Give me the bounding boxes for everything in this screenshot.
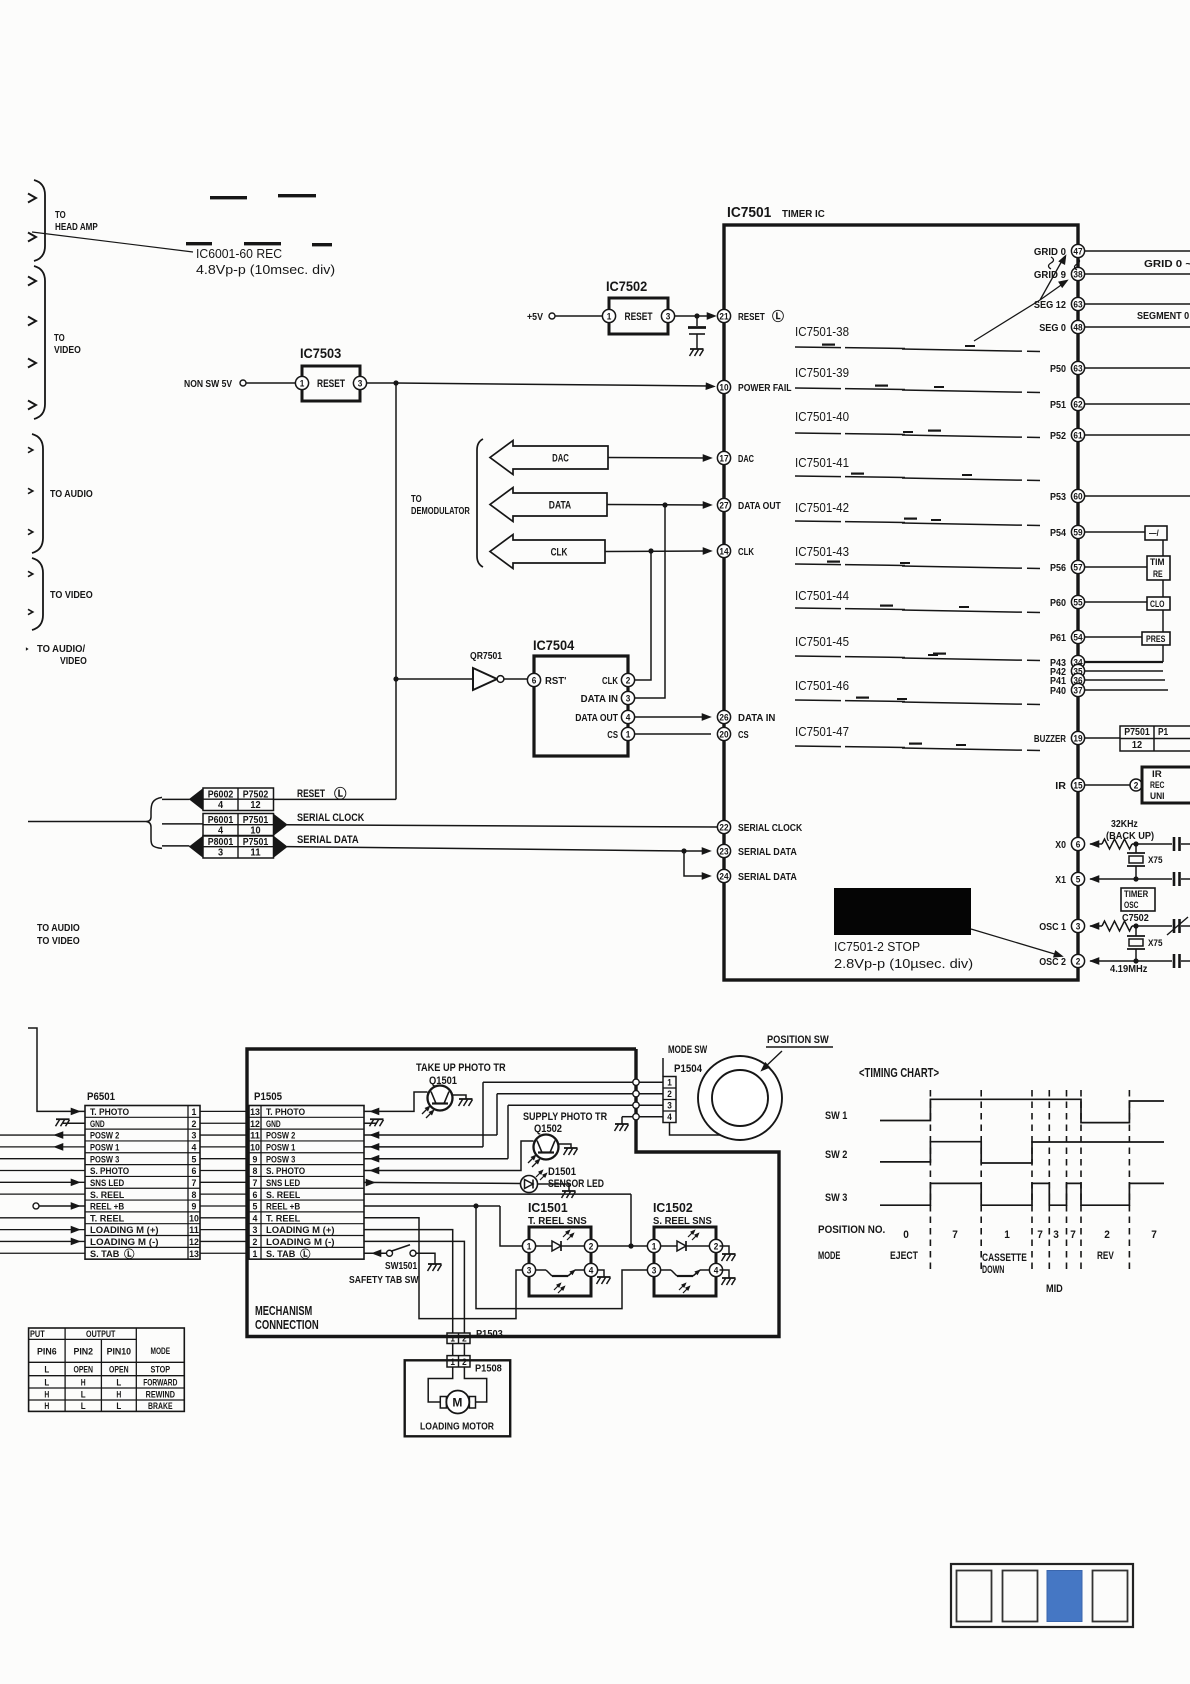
- svg-text:OPEN: OPEN: [109, 1364, 129, 1375]
- svg-text:2: 2: [589, 1241, 594, 1251]
- svg-text:PIN10: PIN10: [107, 1347, 132, 1358]
- svg-text:IC7501-39: IC7501-39: [795, 366, 849, 380]
- svg-text:DATA OUT: DATA OUT: [738, 500, 781, 512]
- svg-text:4: 4: [589, 1265, 594, 1275]
- svg-text:59: 59: [1073, 527, 1082, 537]
- svg-text:GRID 0 ~: GRID 0 ~: [1144, 258, 1190, 270]
- svg-text:3: 3: [1076, 921, 1081, 931]
- svg-text:1: 1: [1004, 1229, 1010, 1241]
- svg-text:SW 2: SW 2: [825, 1149, 847, 1161]
- svg-text:TO: TO: [55, 209, 66, 221]
- svg-text:2: 2: [1076, 956, 1081, 966]
- svg-text:17: 17: [719, 453, 728, 463]
- svg-text:P52: P52: [1050, 430, 1066, 442]
- svg-text:POSW 2: POSW 2: [266, 1131, 295, 1142]
- svg-text:SERIAL CLOCK: SERIAL CLOCK: [297, 812, 364, 824]
- svg-text:DATA IN: DATA IN: [581, 693, 618, 705]
- svg-text:TO: TO: [54, 332, 65, 344]
- svg-text:IC6001-60 REC: IC6001-60 REC: [196, 246, 282, 261]
- svg-text:POSW 3: POSW 3: [90, 1154, 119, 1165]
- svg-text:2: 2: [1134, 781, 1139, 791]
- svg-text:X75: X75: [1148, 938, 1163, 949]
- svg-text:IC7501-43: IC7501-43: [795, 545, 849, 559]
- svg-text:IC7501-46: IC7501-46: [795, 679, 849, 693]
- svg-text:MID: MID: [1046, 1283, 1063, 1295]
- svg-text:T. PHOTO: T. PHOTO: [90, 1107, 130, 1118]
- svg-text:P7501: P7501: [1124, 727, 1150, 738]
- svg-text:VIDEO: VIDEO: [60, 655, 87, 667]
- svg-text:IC1502: IC1502: [653, 1200, 693, 1215]
- svg-text:SERIAL CLOCK: SERIAL CLOCK: [738, 822, 803, 834]
- svg-text:Ⓛ: Ⓛ: [300, 1247, 311, 1260]
- svg-text:CLK: CLK: [602, 675, 618, 687]
- svg-text:P51: P51: [1050, 399, 1066, 411]
- svg-text:11: 11: [250, 848, 261, 859]
- svg-text:4.19MHz: 4.19MHz: [1110, 963, 1147, 975]
- svg-text:SERIAL DATA: SERIAL DATA: [738, 871, 797, 883]
- svg-text:P54: P54: [1050, 527, 1066, 539]
- svg-text:OUTPUT: OUTPUT: [86, 1329, 115, 1340]
- svg-text:HEAD AMP: HEAD AMP: [55, 221, 98, 233]
- svg-text:47: 47: [1073, 246, 1082, 256]
- svg-text:4: 4: [218, 800, 224, 811]
- svg-text:S. REEL: S. REEL: [266, 1190, 300, 1201]
- svg-text:Ⓛ: Ⓛ: [124, 1247, 135, 1260]
- svg-text:TO VIDEO: TO VIDEO: [37, 935, 80, 947]
- svg-text:S. TAB: S. TAB: [90, 1249, 119, 1260]
- svg-text:P7501: P7501: [243, 837, 269, 848]
- svg-text:P1505: P1505: [254, 1091, 282, 1103]
- svg-text:IC7501-40: IC7501-40: [795, 410, 849, 424]
- svg-text:P7501: P7501: [243, 815, 269, 826]
- svg-text:TO AUDIO: TO AUDIO: [37, 922, 80, 934]
- svg-text:SEGMENT 0 ~: SEGMENT 0 ~: [1137, 310, 1190, 322]
- svg-text:55: 55: [1073, 597, 1082, 607]
- svg-text:MECHANISM: MECHANISM: [255, 1304, 312, 1318]
- svg-text:20: 20: [719, 729, 728, 739]
- svg-text:X75: X75: [1148, 855, 1163, 866]
- svg-text:1: 1: [450, 1357, 455, 1367]
- svg-text:REC: REC: [1150, 780, 1165, 791]
- svg-text:TIMER IC: TIMER IC: [782, 208, 825, 220]
- svg-text:+5V: +5V: [527, 311, 543, 323]
- svg-text:SUPPLY PHOTO TR: SUPPLY PHOTO TR: [523, 1111, 607, 1123]
- svg-text:GND: GND: [90, 1119, 105, 1130]
- svg-text:POSW 1: POSW 1: [90, 1142, 120, 1153]
- svg-text:CS: CS: [738, 729, 749, 741]
- svg-text:LOADING M (+): LOADING M (+): [266, 1225, 335, 1236]
- svg-text:12: 12: [189, 1237, 199, 1248]
- svg-text:P61: P61: [1050, 632, 1066, 644]
- svg-text:—/: —/: [1149, 528, 1159, 539]
- svg-text:3: 3: [358, 378, 363, 388]
- svg-text:IR: IR: [1055, 780, 1066, 792]
- svg-text:CLO: CLO: [1150, 599, 1165, 610]
- svg-text:PIN2: PIN2: [73, 1347, 93, 1358]
- svg-text:M: M: [452, 1396, 463, 1410]
- svg-text:7: 7: [1151, 1229, 1157, 1241]
- svg-text:7: 7: [1070, 1229, 1076, 1241]
- svg-text:5: 5: [192, 1154, 198, 1165]
- svg-text:10: 10: [250, 1142, 260, 1153]
- svg-text:23: 23: [719, 846, 728, 856]
- svg-text:CLK: CLK: [738, 546, 754, 558]
- svg-text:L: L: [116, 1377, 121, 1388]
- svg-text:S. TAB: S. TAB: [266, 1249, 295, 1260]
- svg-text:TO VIDEO: TO VIDEO: [50, 589, 93, 601]
- svg-text:38: 38: [1073, 269, 1082, 279]
- svg-text:RST': RST': [545, 675, 566, 687]
- svg-text:11: 11: [250, 1131, 260, 1142]
- svg-text:S. PHOTO: S. PHOTO: [90, 1166, 130, 1177]
- svg-text:TAKE UP PHOTO TR: TAKE UP PHOTO TR: [416, 1062, 506, 1074]
- svg-text:14: 14: [719, 546, 728, 556]
- svg-text:P1508: P1508: [475, 1363, 502, 1375]
- svg-text:7: 7: [253, 1178, 258, 1189]
- svg-text:MODE: MODE: [818, 1250, 840, 1262]
- svg-text:4: 4: [714, 1265, 719, 1275]
- svg-text:P8001: P8001: [208, 837, 234, 848]
- svg-text:3: 3: [527, 1265, 532, 1275]
- svg-text:P56: P56: [1050, 562, 1066, 574]
- svg-text:OPEN: OPEN: [73, 1364, 93, 1375]
- svg-text:7: 7: [1037, 1229, 1043, 1241]
- svg-text:2: 2: [714, 1241, 719, 1251]
- svg-text:OSC: OSC: [1124, 900, 1139, 911]
- svg-text:2: 2: [192, 1119, 197, 1130]
- svg-text:12: 12: [250, 1119, 260, 1130]
- svg-text:PUT: PUT: [30, 1329, 45, 1340]
- svg-text:REV: REV: [1097, 1250, 1114, 1262]
- svg-text:1: 1: [450, 1334, 455, 1344]
- svg-text:Ⓛ: Ⓛ: [772, 309, 785, 324]
- svg-text:SW 3: SW 3: [825, 1192, 847, 1204]
- svg-text:1: 1: [607, 311, 612, 321]
- svg-text:19: 19: [1073, 733, 1082, 743]
- svg-text:15: 15: [1073, 780, 1082, 790]
- svg-text:48: 48: [1073, 322, 1082, 332]
- svg-text:X1: X1: [1055, 874, 1066, 886]
- svg-text:RESET: RESET: [738, 311, 765, 323]
- svg-text:P6001: P6001: [208, 815, 234, 826]
- svg-text:P53: P53: [1050, 491, 1066, 503]
- svg-text:10: 10: [719, 382, 728, 392]
- svg-text:LOADING M (+): LOADING M (+): [90, 1225, 159, 1236]
- svg-text:REWIND: REWIND: [146, 1389, 175, 1400]
- svg-text:3: 3: [192, 1131, 197, 1142]
- svg-text:DATA: DATA: [549, 500, 571, 512]
- svg-text:SEG 0: SEG 0: [1039, 322, 1066, 334]
- svg-text:57: 57: [1073, 562, 1082, 572]
- svg-text:DEMODULATOR: DEMODULATOR: [411, 505, 470, 517]
- svg-text:3: 3: [253, 1225, 258, 1236]
- svg-text:3: 3: [667, 1101, 672, 1111]
- svg-text:MODE SW: MODE SW: [668, 1044, 708, 1056]
- svg-text:P60: P60: [1050, 597, 1066, 609]
- svg-text:3: 3: [626, 693, 631, 703]
- svg-text:T. REEL SNS: T. REEL SNS: [528, 1215, 587, 1227]
- svg-text:(BACK UP): (BACK UP): [1106, 830, 1154, 842]
- svg-text:5: 5: [253, 1202, 259, 1213]
- svg-text:H: H: [116, 1389, 121, 1400]
- svg-text:L: L: [44, 1364, 49, 1375]
- svg-text:<TIMING CHART>: <TIMING CHART>: [859, 1066, 939, 1080]
- svg-text:RE: RE: [1153, 569, 1163, 580]
- svg-text:POSW 3: POSW 3: [266, 1154, 295, 1165]
- svg-text:11: 11: [189, 1225, 199, 1236]
- svg-text:1: 1: [192, 1107, 198, 1118]
- svg-text:8: 8: [253, 1166, 259, 1177]
- svg-text:37: 37: [1073, 685, 1082, 695]
- svg-text:L: L: [81, 1389, 86, 1400]
- svg-text:SAFETY TAB SW: SAFETY TAB SW: [349, 1274, 419, 1286]
- svg-text:T. REEL: T. REEL: [90, 1213, 124, 1224]
- svg-text:SW 1: SW 1: [825, 1110, 847, 1122]
- svg-text:2: 2: [667, 1089, 672, 1099]
- svg-text:DAC: DAC: [738, 453, 754, 465]
- svg-text:TO AUDIO: TO AUDIO: [50, 488, 93, 500]
- svg-text:L: L: [81, 1401, 86, 1412]
- svg-text:1: 1: [626, 729, 631, 739]
- svg-text:H: H: [44, 1401, 49, 1412]
- svg-text:60: 60: [1073, 491, 1082, 501]
- svg-text:TO: TO: [411, 493, 422, 505]
- svg-text:L: L: [116, 1401, 121, 1412]
- svg-text:TIMER: TIMER: [1124, 889, 1148, 900]
- svg-text:RESET: RESET: [625, 311, 653, 323]
- svg-text:POSW 1: POSW 1: [266, 1142, 296, 1153]
- svg-text:1: 1: [667, 1078, 672, 1088]
- svg-text:P6501: P6501: [87, 1091, 115, 1103]
- svg-text:IC7501-38: IC7501-38: [795, 325, 849, 339]
- svg-text:2: 2: [626, 675, 631, 685]
- svg-text:S. REEL: S. REEL: [90, 1190, 124, 1201]
- svg-text:8: 8: [192, 1190, 198, 1201]
- svg-text:RESET: RESET: [297, 788, 325, 800]
- svg-text:CONNECTION: CONNECTION: [255, 1318, 319, 1332]
- svg-text:2.8Vp-p (10µsec. div): 2.8Vp-p (10µsec. div): [834, 956, 973, 971]
- svg-text:REEL +B: REEL +B: [90, 1202, 124, 1213]
- svg-text:IR: IR: [1152, 769, 1162, 780]
- svg-text:H: H: [81, 1377, 86, 1388]
- svg-text:DOWN: DOWN: [982, 1264, 1004, 1276]
- svg-text:63: 63: [1073, 299, 1082, 309]
- svg-text:9: 9: [253, 1154, 258, 1165]
- svg-text:GRID 0: GRID 0: [1034, 246, 1066, 258]
- svg-text:P1503: P1503: [476, 1328, 503, 1340]
- svg-text:2: 2: [253, 1237, 258, 1248]
- svg-text:5: 5: [1076, 874, 1081, 884]
- svg-text:IC7502: IC7502: [606, 279, 647, 294]
- svg-text:C7502: C7502: [1122, 912, 1149, 924]
- svg-text:IC7501-2 STOP: IC7501-2 STOP: [834, 939, 920, 954]
- svg-text:3: 3: [218, 848, 224, 859]
- svg-text:GRID 9: GRID 9: [1034, 269, 1066, 281]
- svg-text:1: 1: [253, 1249, 259, 1260]
- svg-text:S. PHOTO: S. PHOTO: [266, 1166, 306, 1177]
- svg-text:21: 21: [719, 311, 728, 321]
- svg-text:S. REEL SNS: S. REEL SNS: [653, 1215, 712, 1227]
- svg-text:POSITION SW: POSITION SW: [767, 1034, 829, 1046]
- svg-text:SW1501: SW1501: [385, 1260, 417, 1272]
- svg-text:13: 13: [250, 1107, 260, 1118]
- svg-text:10: 10: [189, 1213, 199, 1224]
- svg-text:PIN6: PIN6: [37, 1347, 57, 1358]
- svg-text:9: 9: [192, 1202, 197, 1213]
- svg-text:CASSETTE: CASSETTE: [982, 1252, 1027, 1264]
- svg-text:P50: P50: [1050, 363, 1066, 375]
- svg-text:VIDEO: VIDEO: [54, 344, 81, 356]
- svg-text:RESET: RESET: [317, 378, 345, 390]
- svg-text:IC7501-47: IC7501-47: [795, 725, 849, 739]
- svg-text:Q1502: Q1502: [534, 1123, 562, 1135]
- svg-text:POSW 2: POSW 2: [90, 1131, 119, 1142]
- svg-text:H: H: [44, 1389, 49, 1400]
- svg-text:13: 13: [189, 1249, 199, 1260]
- svg-text:GND: GND: [266, 1119, 281, 1130]
- svg-text:OSC 1: OSC 1: [1039, 921, 1066, 933]
- svg-text:EJECT: EJECT: [890, 1250, 918, 1262]
- svg-text:2: 2: [462, 1357, 467, 1367]
- svg-text:‣: ‣: [25, 645, 29, 654]
- svg-text:IC7504: IC7504: [533, 638, 575, 653]
- svg-text:IC1501: IC1501: [528, 1200, 568, 1215]
- svg-text:DATA OUT: DATA OUT: [575, 712, 618, 724]
- svg-text:4: 4: [667, 1112, 672, 1122]
- svg-text:6: 6: [532, 675, 537, 685]
- svg-text:P1: P1: [1158, 727, 1169, 738]
- svg-text:SNS LED: SNS LED: [266, 1178, 300, 1189]
- svg-text:L: L: [44, 1377, 49, 1388]
- svg-text:MODE: MODE: [151, 1346, 171, 1357]
- svg-text:P40: P40: [1050, 685, 1066, 697]
- svg-text:POWER FAIL: POWER FAIL: [738, 382, 792, 394]
- svg-text:22: 22: [719, 822, 728, 832]
- svg-text:QR7501: QR7501: [470, 650, 502, 662]
- svg-text:1: 1: [527, 1241, 532, 1251]
- svg-text:4: 4: [626, 712, 631, 722]
- svg-text:TO AUDIO/: TO AUDIO/: [37, 643, 85, 655]
- svg-text:IC7501-44: IC7501-44: [795, 589, 849, 603]
- svg-text:X0: X0: [1055, 839, 1066, 851]
- svg-text:PRES: PRES: [1146, 634, 1165, 645]
- svg-text:6: 6: [1076, 839, 1081, 849]
- svg-text:DATA IN: DATA IN: [738, 712, 775, 724]
- svg-text:TIM: TIM: [1150, 557, 1165, 568]
- svg-text:1: 1: [300, 378, 305, 388]
- svg-text:27: 27: [719, 500, 728, 510]
- svg-text:4: 4: [192, 1142, 198, 1153]
- svg-text:3: 3: [652, 1265, 657, 1275]
- svg-text:P7502: P7502: [243, 789, 269, 800]
- svg-text:4.8Vp-p (10msec. div): 4.8Vp-p (10msec. div): [196, 262, 335, 277]
- svg-text:REEL +B: REEL +B: [266, 1202, 300, 1213]
- svg-text:7: 7: [192, 1178, 197, 1189]
- svg-text:63: 63: [1073, 363, 1082, 373]
- svg-text:IC7501-45: IC7501-45: [795, 635, 849, 649]
- svg-text:CLK: CLK: [551, 547, 568, 559]
- svg-text:LOADING MOTOR: LOADING MOTOR: [420, 1421, 494, 1433]
- svg-text:6: 6: [253, 1190, 258, 1201]
- svg-text:54: 54: [1073, 632, 1082, 642]
- svg-text:7: 7: [952, 1229, 958, 1241]
- svg-text:3: 3: [1053, 1229, 1059, 1241]
- svg-text:IC7503: IC7503: [300, 346, 342, 361]
- svg-text:BRAKE: BRAKE: [148, 1401, 173, 1412]
- svg-text:4: 4: [253, 1213, 259, 1224]
- svg-text:12: 12: [1132, 740, 1143, 751]
- svg-text:IC7501-41: IC7501-41: [795, 456, 849, 470]
- svg-text:6: 6: [192, 1166, 197, 1177]
- svg-text:POSITION NO.: POSITION NO.: [818, 1224, 885, 1236]
- svg-text:2: 2: [1104, 1229, 1110, 1241]
- svg-text:2: 2: [462, 1334, 467, 1344]
- svg-text:62: 62: [1073, 399, 1082, 409]
- svg-text:OSC 2: OSC 2: [1039, 956, 1066, 968]
- svg-text:UNI: UNI: [1150, 791, 1165, 802]
- svg-text:SERIAL DATA: SERIAL DATA: [738, 846, 797, 858]
- svg-text:SERIAL DATA: SERIAL DATA: [297, 834, 359, 846]
- svg-text:T. PHOTO: T. PHOTO: [266, 1107, 306, 1118]
- svg-text:P1504: P1504: [674, 1063, 703, 1075]
- svg-text:IC7501-42: IC7501-42: [795, 501, 849, 515]
- svg-text:DAC: DAC: [552, 453, 569, 465]
- svg-text:CS: CS: [607, 729, 618, 741]
- svg-text:SNS LED: SNS LED: [90, 1178, 124, 1189]
- svg-text:P6002: P6002: [208, 789, 234, 800]
- svg-text:3: 3: [666, 311, 671, 321]
- svg-text:FORWARD: FORWARD: [143, 1377, 177, 1388]
- svg-text:32KHz: 32KHz: [1111, 818, 1138, 830]
- svg-text:24: 24: [719, 871, 728, 881]
- svg-text:STOP: STOP: [151, 1364, 171, 1375]
- svg-text:IC7501: IC7501: [727, 205, 771, 221]
- svg-text:0: 0: [903, 1229, 909, 1241]
- svg-text:LOADING M (-): LOADING M (-): [266, 1237, 335, 1248]
- svg-text:LOADING M (-): LOADING M (-): [90, 1237, 159, 1248]
- svg-text:1: 1: [652, 1241, 657, 1251]
- svg-text:12: 12: [250, 800, 261, 811]
- svg-text:61: 61: [1073, 430, 1082, 440]
- svg-text:26: 26: [719, 712, 728, 722]
- svg-text:D1501: D1501: [548, 1166, 576, 1178]
- svg-text:T. REEL: T. REEL: [266, 1213, 300, 1224]
- svg-text:NON SW 5V: NON SW 5V: [184, 378, 232, 390]
- svg-text:BUZZER: BUZZER: [1034, 733, 1066, 745]
